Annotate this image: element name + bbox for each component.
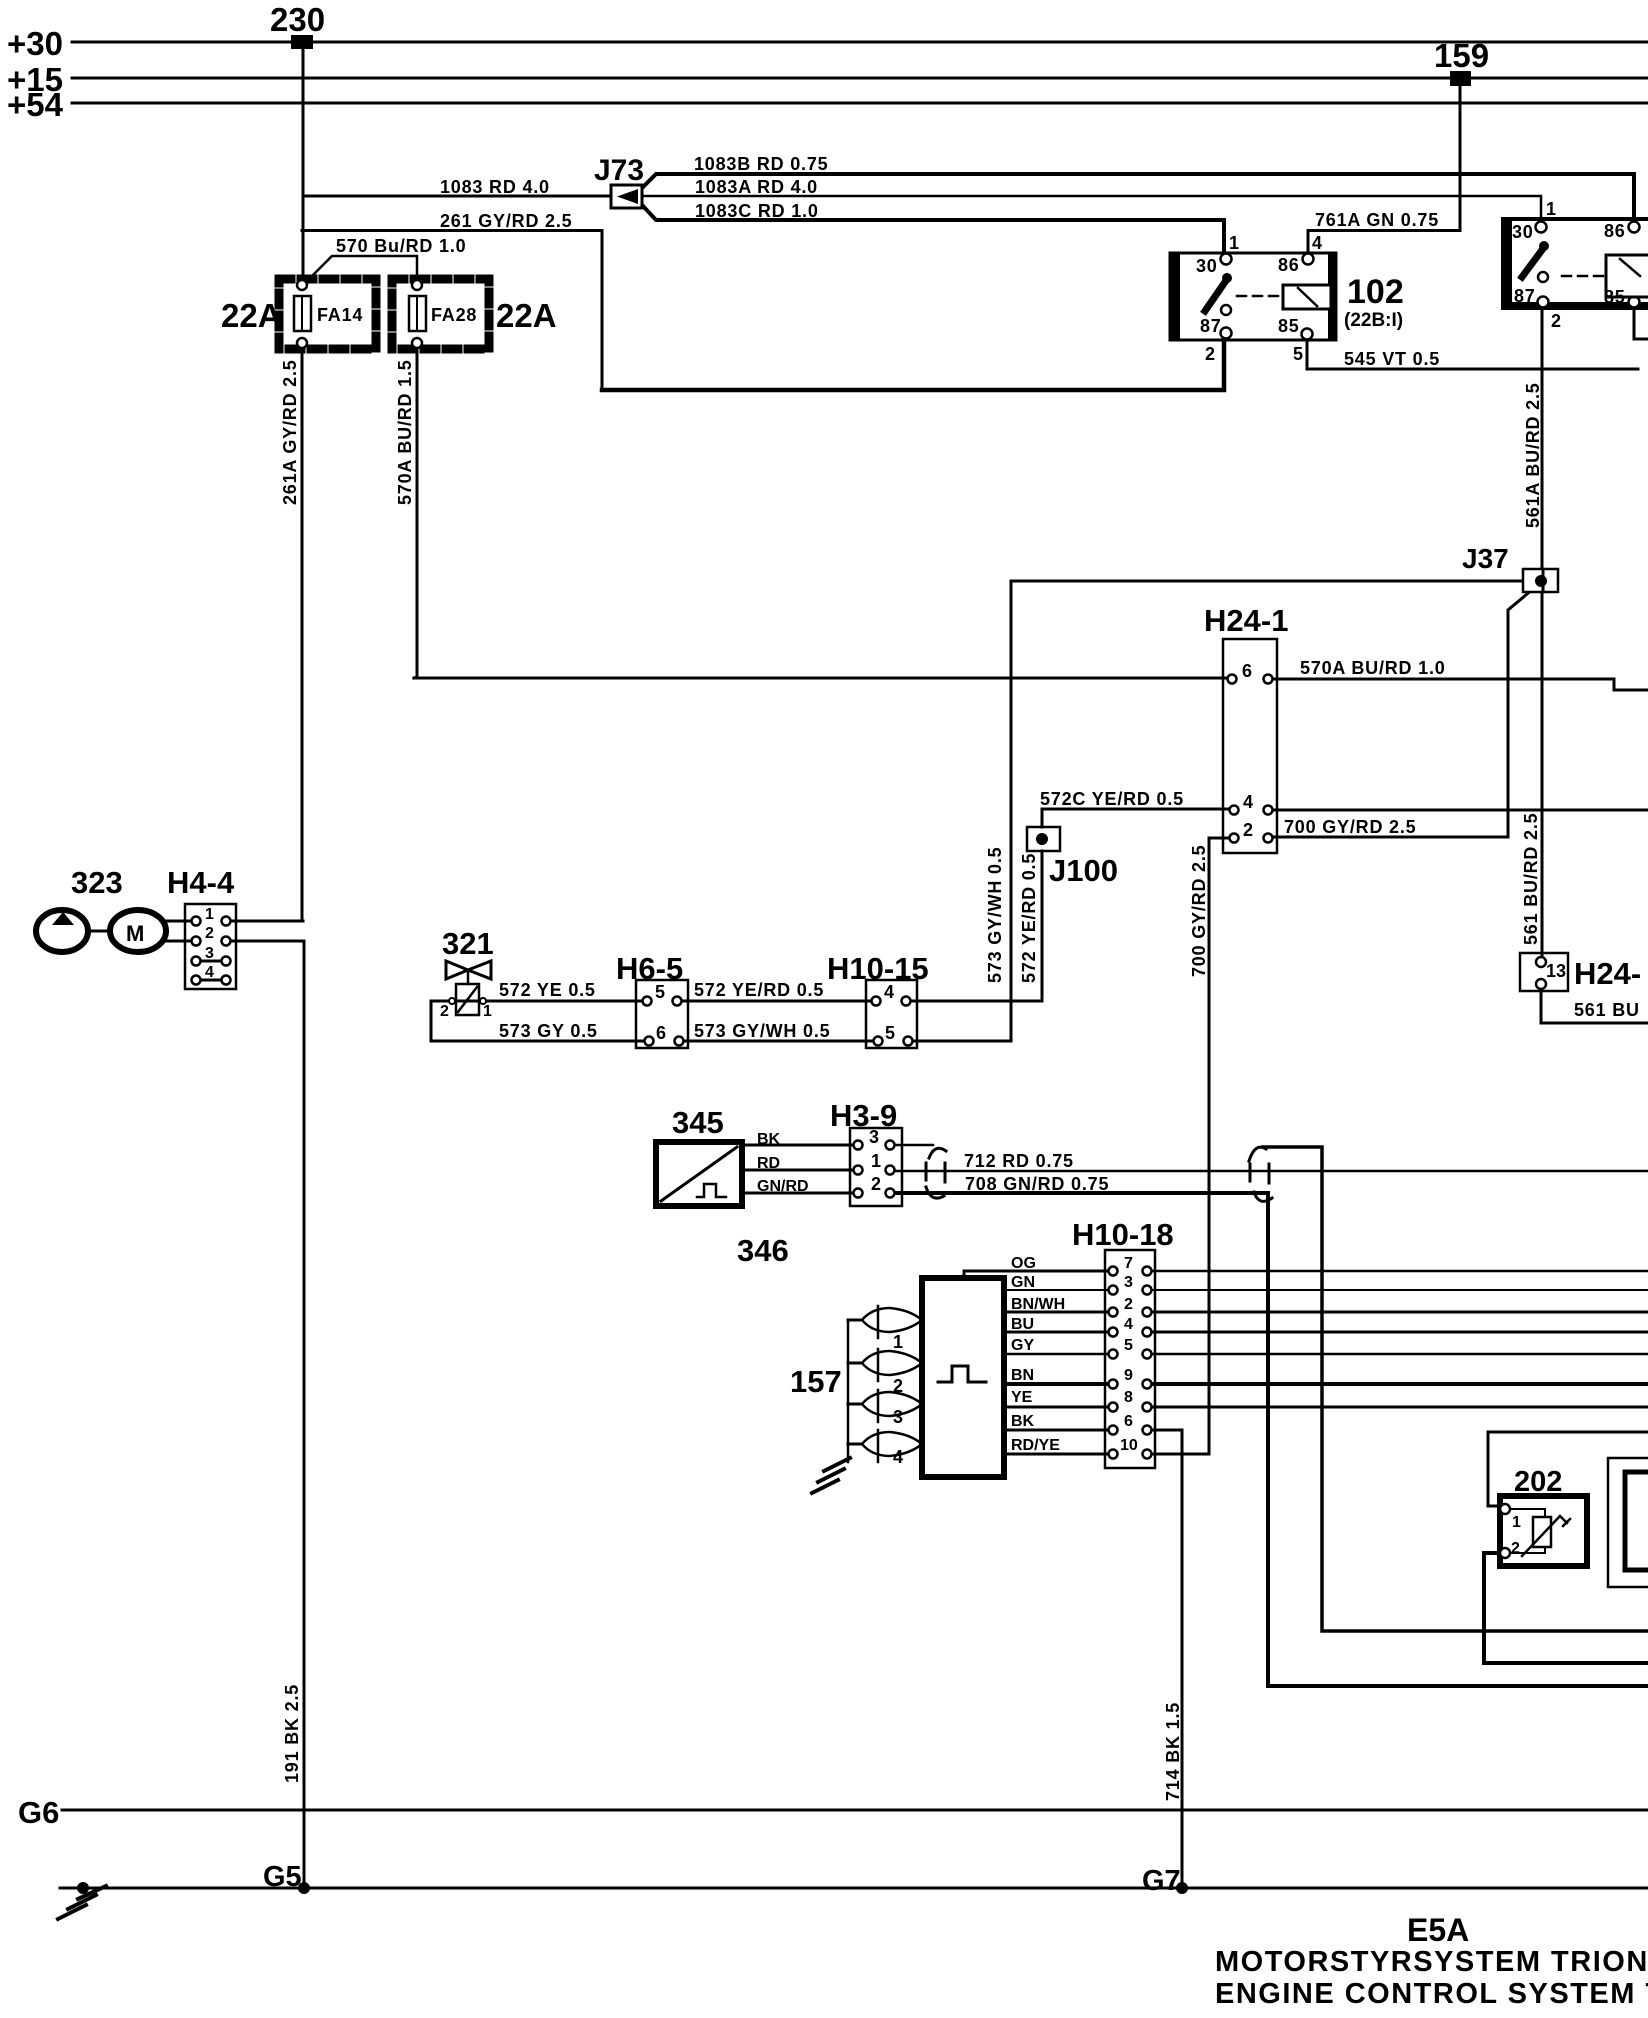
svg-text:5: 5 [885, 1023, 896, 1043]
svg-text:561A BU/RD 2.5: 561A BU/RD 2.5 [1523, 382, 1543, 528]
svg-text:+30: +30 [7, 25, 63, 62]
svg-text:30: 30 [1196, 256, 1218, 276]
svg-text:1: 1 [205, 906, 214, 923]
svg-text:5: 5 [1293, 344, 1304, 364]
svg-text:H24-: H24- [1574, 956, 1641, 991]
svg-text:3: 3 [205, 945, 214, 962]
svg-text:J100: J100 [1049, 853, 1118, 888]
svg-text:13: 13 [1546, 961, 1566, 981]
svg-text:561 BU/RD 2.5: 561 BU/RD 2.5 [1521, 813, 1541, 945]
svg-text:10: 10 [1120, 1437, 1138, 1454]
svg-text:1: 1 [1546, 199, 1557, 219]
svg-text:5: 5 [655, 982, 666, 1002]
svg-text:714 BK 1.5: 714 BK 1.5 [1163, 1702, 1183, 1801]
svg-text:RD/YE: RD/YE [1011, 1437, 1060, 1454]
svg-text:570A BU/RD 1.0: 570A BU/RD 1.0 [1300, 658, 1446, 678]
svg-text:1083C RD 1.0: 1083C RD 1.0 [695, 201, 819, 221]
svg-text:86: 86 [1604, 221, 1626, 241]
svg-text:86: 86 [1278, 255, 1300, 275]
svg-text:2: 2 [440, 1003, 449, 1020]
svg-text:230: 230 [270, 1, 325, 38]
svg-text:6: 6 [1124, 1413, 1133, 1430]
svg-text:OG: OG [1011, 1255, 1036, 1272]
svg-text:4: 4 [205, 964, 214, 981]
svg-text:5: 5 [1124, 1337, 1133, 1354]
svg-text:159: 159 [1434, 37, 1489, 74]
svg-text:573 GY 0.5: 573 GY 0.5 [499, 1021, 598, 1041]
svg-text:FA28: FA28 [431, 305, 477, 325]
svg-text:1083 RD 4.0: 1083 RD 4.0 [440, 177, 550, 197]
svg-text:H4-4: H4-4 [167, 865, 235, 900]
svg-text:22A: 22A [221, 297, 282, 334]
svg-text:1: 1 [893, 1332, 904, 1352]
svg-text:4: 4 [1243, 792, 1254, 812]
svg-text:3: 3 [1124, 1274, 1133, 1291]
svg-text:2: 2 [1243, 820, 1254, 840]
svg-text:4: 4 [893, 1447, 904, 1467]
svg-text:RD: RD [757, 1155, 780, 1172]
svg-text:321: 321 [442, 926, 494, 961]
svg-text:1: 1 [871, 1151, 882, 1171]
svg-text:M: M [126, 921, 144, 946]
svg-text:G7: G7 [1142, 1865, 1181, 1897]
svg-text:4: 4 [884, 982, 895, 1002]
svg-text:2: 2 [1551, 311, 1562, 331]
svg-text:H10-18: H10-18 [1072, 1217, 1174, 1252]
svg-text:346: 346 [737, 1233, 789, 1268]
svg-text:1083B RD 0.75: 1083B RD 0.75 [694, 154, 828, 174]
svg-text:345: 345 [672, 1105, 724, 1140]
svg-text:191 BK 2.5: 191 BK 2.5 [282, 1684, 302, 1783]
svg-text:8: 8 [1124, 1389, 1133, 1406]
svg-text:9: 9 [1124, 1367, 1133, 1384]
svg-text:BN: BN [1011, 1367, 1034, 1384]
svg-text:4: 4 [1124, 1316, 1133, 1333]
svg-text:H10-15: H10-15 [827, 951, 929, 986]
svg-text:H24-1: H24-1 [1204, 603, 1288, 638]
svg-text:2: 2 [205, 925, 214, 942]
svg-text:1083A RD 4.0: 1083A RD 4.0 [695, 177, 818, 197]
svg-text:570 Bu/RD 1.0: 570 Bu/RD 1.0 [336, 236, 466, 256]
svg-text:87: 87 [1514, 286, 1536, 306]
svg-text:(22B:I): (22B:I) [1344, 310, 1403, 331]
svg-text:BN/WH: BN/WH [1011, 1296, 1065, 1313]
svg-text:572C YE/RD 0.5: 572C YE/RD 0.5 [1040, 789, 1184, 809]
svg-text:BU: BU [1011, 1316, 1034, 1333]
svg-text:2: 2 [871, 1174, 882, 1194]
svg-text:87: 87 [1200, 316, 1222, 336]
svg-text:GN: GN [1011, 1274, 1035, 1291]
svg-text:261 GY/RD 2.5: 261 GY/RD 2.5 [440, 211, 572, 231]
svg-text:+54: +54 [7, 86, 64, 123]
svg-text:FA14: FA14 [317, 305, 363, 325]
svg-text:2: 2 [1205, 344, 1216, 364]
svg-text:G5: G5 [263, 1861, 302, 1893]
svg-text:6: 6 [656, 1023, 667, 1043]
svg-text:ENGINE CONTROL SYSTEM TR: ENGINE CONTROL SYSTEM TR [1215, 1978, 1648, 2010]
svg-text:572 YE/RD 0.5: 572 YE/RD 0.5 [1019, 853, 1039, 983]
svg-text:J73: J73 [594, 154, 644, 187]
svg-text:261A GY/RD 2.5: 261A GY/RD 2.5 [280, 359, 300, 505]
svg-text:708 GN/RD 0.75: 708 GN/RD 0.75 [965, 1174, 1109, 1194]
svg-text:2: 2 [1124, 1296, 1133, 1313]
svg-text:H6-5: H6-5 [616, 951, 683, 986]
svg-text:85: 85 [1604, 287, 1626, 307]
svg-text:545 VT 0.5: 545 VT 0.5 [1344, 349, 1440, 369]
svg-text:BK: BK [1011, 1413, 1035, 1430]
svg-text:3: 3 [869, 1127, 880, 1147]
svg-text:700 GY/RD 2.5: 700 GY/RD 2.5 [1189, 845, 1209, 977]
svg-text:761A GN 0.75: 761A GN 0.75 [1315, 210, 1439, 230]
svg-text:157: 157 [790, 1364, 842, 1399]
svg-text:GN/RD: GN/RD [757, 1178, 809, 1195]
svg-text:30: 30 [1512, 222, 1534, 242]
svg-text:2: 2 [893, 1376, 904, 1396]
svg-text:1: 1 [1512, 1514, 1521, 1531]
svg-text:102: 102 [1347, 273, 1404, 311]
svg-text:572 YE 0.5: 572 YE 0.5 [499, 980, 596, 1000]
svg-text:22A: 22A [496, 297, 557, 334]
svg-text:7: 7 [1124, 1255, 1133, 1272]
svg-text:561 BU: 561 BU [1574, 1000, 1640, 1020]
svg-text:1: 1 [483, 1003, 492, 1020]
svg-text:2: 2 [1511, 1540, 1520, 1557]
svg-text:BK: BK [757, 1131, 781, 1148]
svg-text:E5A: E5A [1407, 1912, 1469, 1948]
svg-text:J37: J37 [1462, 543, 1509, 574]
svg-text:700 GY/RD 2.5: 700 GY/RD 2.5 [1284, 817, 1416, 837]
svg-text:572 YE/RD 0.5: 572 YE/RD 0.5 [694, 980, 824, 1000]
svg-text:323: 323 [71, 865, 123, 900]
svg-text:4: 4 [1312, 233, 1323, 253]
svg-text:3: 3 [893, 1407, 904, 1427]
svg-text:570A BU/RD 1.5: 570A BU/RD 1.5 [395, 359, 415, 505]
svg-text:573 GY/WH 0.5: 573 GY/WH 0.5 [985, 847, 1005, 983]
svg-text:YE: YE [1011, 1389, 1033, 1406]
svg-text:202: 202 [1514, 1466, 1562, 1498]
svg-text:85: 85 [1278, 316, 1300, 336]
svg-text:H3-9: H3-9 [830, 1098, 897, 1133]
svg-text:GY: GY [1011, 1337, 1034, 1354]
svg-text:MOTORSTYRSYSTEM TRIONIC: MOTORSTYRSYSTEM TRIONIC [1215, 1946, 1648, 1978]
svg-text:6: 6 [1242, 661, 1253, 681]
svg-text:1: 1 [1229, 233, 1240, 253]
svg-text:573 GY/WH 0.5: 573 GY/WH 0.5 [694, 1021, 830, 1041]
svg-text:712 RD 0.75: 712 RD 0.75 [964, 1151, 1074, 1171]
svg-text:G6: G6 [18, 1795, 59, 1830]
